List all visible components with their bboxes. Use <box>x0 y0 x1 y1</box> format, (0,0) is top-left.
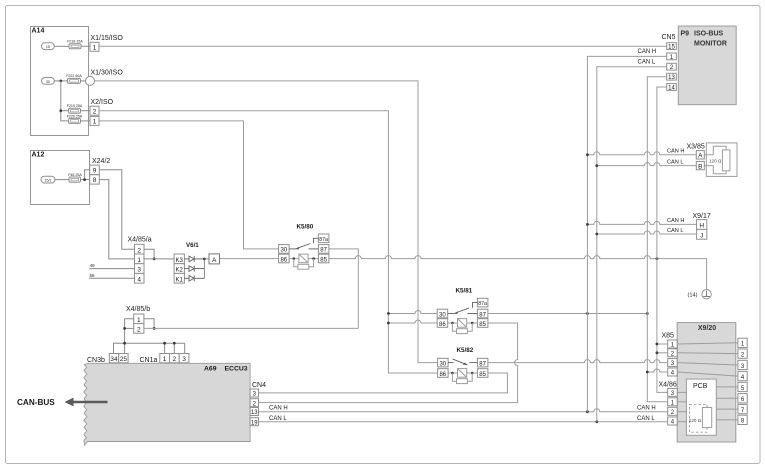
svg-text:30: 30 <box>46 80 50 84</box>
junction ground bus / CN5-14 net <box>656 257 659 260</box>
svg-text:3: 3 <box>182 356 186 363</box>
svg-text:CAN L: CAN L <box>269 416 287 422</box>
svg-text:K5/82: K5/82 <box>457 347 474 354</box>
K5/81 pin 30 <box>437 309 448 318</box>
K5/82 pin 85 <box>477 369 488 378</box>
svg-text:X85: X85 <box>662 333 675 340</box>
wire CAN L to X9/17-J <box>597 231 697 234</box>
wire <box>54 80 67 82</box>
svg-text:A69: A69 <box>204 366 217 373</box>
svg-text:85: 85 <box>479 322 486 328</box>
ground (14) <box>688 290 712 299</box>
svg-text:4: 4 <box>137 276 141 283</box>
svg-text:87: 87 <box>479 312 486 318</box>
wire X24/2-9 to X4/85/a-2 <box>99 170 134 249</box>
junction <box>173 342 176 345</box>
wire to pin 8 with branch to pin 9 <box>81 179 90 181</box>
wire pin2 jumper to pin1 <box>144 249 154 259</box>
svg-text:K2: K2 <box>176 268 184 274</box>
svg-text:X24/2: X24/2 <box>92 158 110 165</box>
svg-text:ECCU3: ECCU3 <box>225 366 248 373</box>
svg-text:X4/85/a: X4/85/a <box>128 237 152 244</box>
connector X9/20 right pins 1-8 <box>738 338 747 425</box>
wire K5/82-87 to X85-3 <box>488 360 668 363</box>
CAN-BUS label and arrow <box>17 398 108 407</box>
svg-text:2: 2 <box>93 109 97 116</box>
svg-text:A12: A12 <box>32 152 45 159</box>
wire CN5-13 vertical <box>647 77 667 402</box>
K5/81 pin 87 <box>477 309 488 318</box>
wire X1/30 to K5/82-30 <box>95 81 438 363</box>
wire diode outputs join <box>203 259 205 278</box>
wire <box>54 45 69 47</box>
wire <box>81 80 86 82</box>
svg-text:F218 15A: F218 15A <box>67 40 83 44</box>
fuse F222 60A <box>66 74 82 83</box>
terminal K3 <box>174 254 184 264</box>
wire <box>81 110 91 112</box>
svg-text:K1: K1 <box>176 277 184 283</box>
K5/80 pin 85 <box>318 254 329 263</box>
wire X2 net to K5/81-86 <box>388 320 437 323</box>
junction on CN5-13 vertical <box>646 312 649 315</box>
svg-text:85: 85 <box>320 257 327 263</box>
svg-text:2: 2 <box>137 327 141 334</box>
K5/81 pin 87a <box>477 298 488 307</box>
wire X1/15 to CN5-15 <box>99 45 667 47</box>
fuse box A14 <box>31 27 89 136</box>
svg-text:15: 15 <box>668 45 675 51</box>
svg-text:85: 85 <box>479 372 486 378</box>
junction on CAN H bus <box>586 153 589 156</box>
K5/80 coil resistor <box>293 257 315 269</box>
svg-text:2: 2 <box>137 247 141 254</box>
K5/81 switch contact <box>448 303 478 315</box>
relay K5/80 <box>297 223 314 230</box>
wire <box>55 179 69 181</box>
svg-text:CN5: CN5 <box>662 34 676 41</box>
connector CN3b <box>87 354 128 364</box>
svg-text:X9/20: X9/20 <box>698 325 716 332</box>
svg-text:3: 3 <box>137 267 141 274</box>
ECU A69 ECCU3 <box>84 363 250 445</box>
wire CAN H to X9/17-H <box>587 221 696 224</box>
K5/81 coil resistor <box>451 322 473 334</box>
svg-text:120 Ω: 120 Ω <box>709 159 722 164</box>
junction CAN H bus end <box>586 410 589 413</box>
svg-text:2: 2 <box>172 356 176 363</box>
svg-text:CAN L: CAN L <box>667 159 683 165</box>
svg-text:CAN H: CAN H <box>638 49 657 55</box>
fuse F219 25A <box>67 104 83 113</box>
wire K5/80-87 down to X4/85/b net <box>329 249 358 329</box>
svg-text:1: 1 <box>93 119 97 126</box>
wires X4/86 pins to PCB <box>677 392 686 421</box>
junction <box>163 342 166 345</box>
wire CAN L to X3/85-B <box>597 163 697 166</box>
wire to A box <box>204 258 209 260</box>
connector X9/17 <box>693 213 711 239</box>
wires X85 pins through X9/20 to right pins <box>677 343 738 376</box>
connector X4/86 <box>659 381 678 425</box>
svg-text:ISO-BUS: ISO-BUS <box>694 31 724 38</box>
wire <box>81 45 90 47</box>
svg-text:B: B <box>698 163 702 170</box>
svg-text:V6/1: V6/1 <box>186 242 199 249</box>
K5/82 pin 86 <box>438 369 449 378</box>
K5/81 pin 85 <box>477 319 488 328</box>
svg-text:30: 30 <box>280 248 287 254</box>
wire X4/85/b-2 left <box>125 327 134 329</box>
K5/80 switch contact <box>289 238 318 249</box>
svg-text:1: 1 <box>137 317 141 324</box>
svg-text:87a: 87a <box>478 301 487 307</box>
diode D1 <box>184 275 204 281</box>
connector X1/30/ISO node <box>86 70 124 86</box>
terminal K1 <box>174 273 184 283</box>
svg-text:CN4: CN4 <box>252 382 266 389</box>
wire F219 tap <box>61 110 69 112</box>
svg-text:J: J <box>700 232 703 239</box>
junction <box>656 351 659 354</box>
svg-text:86: 86 <box>439 372 446 378</box>
svg-text:30: 30 <box>439 361 446 367</box>
wire K5/82-85 to CN4-3 <box>259 373 508 393</box>
svg-text:9: 9 <box>93 168 97 175</box>
stub to CN3b-25 <box>124 343 126 353</box>
svg-text:K5/80: K5/80 <box>297 223 314 230</box>
svg-text:34: 34 <box>110 356 118 363</box>
junction <box>59 109 62 112</box>
relay K5/82 <box>457 347 474 354</box>
junction on CAN H bus <box>586 312 589 315</box>
svg-text:25: 25 <box>120 356 128 363</box>
wire X4/85/b-2 long to K5/80-87 <box>144 327 358 329</box>
svg-text:30: 30 <box>439 312 446 318</box>
junction <box>387 312 390 315</box>
svg-text:CAN L: CAN L <box>637 416 655 422</box>
terminal 15 oval <box>42 43 55 50</box>
terminal K2 <box>174 264 184 274</box>
node A <box>209 254 220 264</box>
K5/82 coil resistor <box>451 372 473 384</box>
connector CN5 <box>662 34 677 92</box>
wire down to X2 fuses <box>61 81 69 121</box>
node on 30 wire <box>59 80 62 83</box>
wire CN4-13 CAN H to X4/86-2 <box>259 409 668 412</box>
wire branch row to CN3b/CN1a <box>114 343 185 353</box>
svg-text:15/1: 15/1 <box>45 179 52 183</box>
terminal 15/1 oval <box>41 176 55 183</box>
svg-text:(14): (14) <box>688 293 698 299</box>
stub to CN1a-1 <box>164 343 166 353</box>
svg-text:CAN L: CAN L <box>638 60 656 66</box>
diode D3 <box>184 256 204 262</box>
svg-text:CAN L: CAN L <box>667 228 683 234</box>
svg-text:13: 13 <box>251 410 258 416</box>
junction <box>387 322 390 325</box>
svg-text:X3/85: X3/85 <box>687 143 705 150</box>
junction <box>123 327 126 330</box>
wire CAN H to X3/85-A <box>587 152 696 155</box>
ECU X9/20 <box>677 323 736 442</box>
svg-text:H: H <box>699 223 704 230</box>
wire X4/85/b-1 left to CN3b branch <box>125 319 134 343</box>
K5/82 pin 87 <box>477 358 488 367</box>
wire CN5-2 CAN L bus <box>597 67 667 422</box>
svg-text:A14: A14 <box>32 28 45 35</box>
svg-text:X1/15/ISO: X1/15/ISO <box>91 35 124 42</box>
svg-text:8: 8 <box>93 177 97 184</box>
wire K5/80-85 ground bus <box>329 256 707 290</box>
K5/82 pin 30 <box>438 358 449 367</box>
connector X2/ISO <box>90 99 114 126</box>
svg-text:X4/85/b: X4/85/b <box>126 306 150 313</box>
svg-text:PCB: PCB <box>693 383 708 390</box>
junction on CAN L bus <box>595 233 598 236</box>
K5/81 pin 86 <box>437 319 448 328</box>
svg-text:58: 58 <box>90 273 96 278</box>
svg-text:CN3b: CN3b <box>87 357 105 364</box>
relay K5/81 <box>456 288 473 295</box>
svg-text:CAN H: CAN H <box>269 405 288 411</box>
wire X24/2-8 to X4/85/a-1 <box>99 180 134 259</box>
svg-text:86: 86 <box>280 257 287 263</box>
connector X4/85/a <box>128 237 152 284</box>
junction <box>83 178 86 181</box>
fuse F220 25A <box>67 115 83 124</box>
wire CN5-14 net to X85-1 <box>657 343 668 345</box>
svg-text:49: 49 <box>90 263 96 268</box>
stub to CN1a-2 <box>173 343 175 353</box>
junction <box>656 343 659 346</box>
junction <box>123 342 126 345</box>
wires PCB to right pins 5-8 <box>716 387 738 420</box>
junction <box>203 258 206 261</box>
svg-text:13: 13 <box>668 75 675 81</box>
svg-text:K3: K3 <box>176 258 184 264</box>
wire X4/85/b-1 right jumper <box>144 319 154 329</box>
node 58 <box>89 273 135 278</box>
connector CN4 <box>250 382 266 427</box>
svg-text:X1/30/ISO: X1/30/ISO <box>91 70 124 77</box>
junction <box>153 327 156 330</box>
monitor P9 ISO-BUS MONITOR <box>678 26 736 105</box>
svg-text:1: 1 <box>137 257 141 264</box>
K5/82 switch contact <box>448 359 477 365</box>
svg-text:F46 25A: F46 25A <box>68 173 82 177</box>
K5/81 coil <box>448 319 478 328</box>
wire <box>81 120 91 122</box>
svg-text:1: 1 <box>163 356 167 363</box>
terminating resistor 120 Ohm at X3/85 <box>704 143 737 177</box>
svg-text:A: A <box>698 153 703 160</box>
wire pin1 to K3 <box>144 258 174 260</box>
connector X4/85/b <box>126 306 150 333</box>
wire X2/ISO-1 to K5/80-30 <box>99 121 279 249</box>
svg-text:CAN H: CAN H <box>667 218 684 224</box>
wire CN4-19 CAN L to X4/86-4 <box>259 421 668 423</box>
junction on CAN L bus <box>595 164 598 167</box>
K5/80 pin 30 <box>279 245 290 254</box>
junction <box>646 371 649 374</box>
svg-text:15: 15 <box>46 45 50 49</box>
svg-text:CN1a: CN1a <box>140 357 158 364</box>
K5/80 pin 86 <box>279 254 290 263</box>
K5/82 coil <box>448 369 477 378</box>
svg-text:86: 86 <box>439 322 446 328</box>
svg-text:1: 1 <box>93 45 97 52</box>
wire K5/81-87 to CN5-13 net <box>488 313 647 315</box>
wire A to K5/80-86 <box>220 258 279 260</box>
svg-text:F219 25A: F219 25A <box>67 104 83 108</box>
wire CN5-14 net to X85-2 <box>657 352 668 354</box>
svg-text:X2/ISO: X2/ISO <box>91 99 114 106</box>
svg-text:F222 60A: F222 60A <box>66 74 82 78</box>
svg-text:87: 87 <box>479 361 486 367</box>
fuse F218 15A <box>67 40 83 49</box>
wire X2/ISO-2 to K5/81 and K5/82-86 <box>99 111 438 373</box>
diode D2 <box>184 266 204 272</box>
fuse box A12 <box>31 151 90 205</box>
wire CN5-14 vertical <box>657 87 668 392</box>
K5/80 pin 87a <box>318 234 329 243</box>
svg-text:120 Ω: 120 Ω <box>689 418 702 423</box>
connector CN1a <box>140 354 189 364</box>
junction CAN L bus end <box>595 420 598 423</box>
wire CN5-13 net to X85-4 <box>647 369 667 372</box>
wire K5/81-85 to CN4-2 <box>259 323 518 403</box>
svg-text:19: 19 <box>251 420 258 426</box>
svg-text:P9: P9 <box>681 31 690 38</box>
svg-text:CAN-BUS: CAN-BUS <box>17 398 55 407</box>
node 49 <box>89 263 134 268</box>
connector X85 <box>662 333 678 377</box>
svg-text:CAN H: CAN H <box>667 149 684 155</box>
svg-text:87a: 87a <box>319 237 328 243</box>
svg-text:CAN H: CAN H <box>637 406 656 412</box>
svg-text:MONITOR: MONITOR <box>694 41 727 48</box>
svg-text:A: A <box>212 257 217 264</box>
svg-text:K5/81: K5/81 <box>456 288 473 295</box>
terminal 30 oval <box>42 78 55 85</box>
wire X2 net to K5/81-30 <box>388 311 437 314</box>
svg-text:14: 14 <box>668 85 675 91</box>
K5/80 pin 87 <box>318 245 329 254</box>
svg-text:87: 87 <box>320 248 327 254</box>
wire CN5-1 CAN H bus <box>587 56 666 411</box>
connector X24/2 <box>90 158 111 184</box>
svg-text:X4/86: X4/86 <box>659 381 677 388</box>
connector X3/85 <box>687 143 705 170</box>
K5/80 coil <box>289 254 318 263</box>
PCB box <box>686 379 716 435</box>
fuse F46 25A <box>68 173 82 182</box>
connector X1/15/ISO pin 1 <box>90 35 123 52</box>
junction <box>153 258 156 261</box>
junction on CAN H bus <box>586 223 589 226</box>
